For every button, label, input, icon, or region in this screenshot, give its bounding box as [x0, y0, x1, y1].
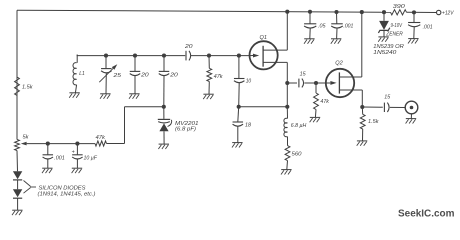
inductor L1: [73, 55, 85, 93]
capacitor 10uF electrolytic: [72, 144, 98, 169]
node junction output filter: [412, 10, 416, 14]
node junction Q1 drain to rail: [285, 10, 289, 14]
ground (output jack): [406, 119, 417, 124]
inductor 6.8uH: [284, 107, 307, 137]
svg-text:47k: 47k: [96, 135, 107, 141]
svg-text:10 µF: 10 µF: [84, 155, 98, 161]
ground (.001 output): [408, 39, 419, 44]
ground (47k gate): [203, 94, 214, 99]
zener diode 1N5239: [378, 12, 389, 37]
capacitor .001 bypass: [331, 12, 353, 39]
connector output jack: [405, 101, 418, 114]
resistor 47k (wiper bus): [95, 135, 107, 146]
varactor MV2201: [158, 107, 172, 144]
resistor 390: [391, 4, 407, 15]
svg-text:1.5k: 1.5k: [22, 85, 34, 91]
wire D2 to ground: [17, 198, 19, 210]
transistor Q2: [326, 69, 363, 97]
svg-text:18: 18: [245, 123, 252, 129]
svg-text:.001: .001: [343, 23, 353, 29]
capacitor .05 bypass: [304, 12, 326, 39]
transistor Q2 label: [335, 61, 343, 67]
svg-text:20: 20: [140, 72, 150, 78]
node junction varactor: [162, 105, 166, 109]
node junction zener: [382, 10, 386, 14]
capacitor 15 output: [362, 94, 405, 112]
wire oscillator bus: [77, 55, 249, 56]
node junction Q1 source / C15: [285, 81, 289, 85]
svg-text:Q2: Q2: [335, 61, 343, 67]
ground (varactor): [158, 144, 169, 149]
svg-text:5k: 5k: [23, 134, 30, 140]
node junction 10uF at wiper: [75, 142, 79, 146]
label zener voltage: [391, 23, 403, 29]
node junction cap 20 a: [133, 54, 137, 58]
node junction .001 at wiper: [46, 142, 50, 146]
resistor 560: [285, 137, 302, 170]
pot wiper arrow: [21, 142, 48, 146]
label varactor: [175, 121, 199, 133]
svg-text:+: +: [72, 149, 75, 155]
node junction Q2 drain to rail: [360, 10, 364, 14]
resistor 1.5k: [15, 77, 34, 96]
ground (cap 18): [232, 143, 243, 148]
node junction cap 10: [237, 54, 241, 58]
watermark SeekIC.com: [398, 208, 455, 219]
wire top supply rail: [17, 10, 437, 12]
ground (L1): [69, 93, 80, 98]
capacitor 18: [233, 107, 252, 143]
ground (10uF): [72, 168, 83, 173]
wire Q1 source down: [286, 62, 288, 106]
capacitor 20 a: [130, 56, 150, 94]
svg-text:.05: .05: [318, 23, 326, 29]
wire Q1 drain to rail: [286, 12, 288, 50]
node junction cap 20 b: [162, 54, 166, 58]
transistor Q1 label: [260, 35, 268, 41]
diode D1 (silicon): [13, 171, 22, 180]
capacitor .001 output filter: [408, 12, 433, 38]
var cap 25 arrow: [99, 64, 117, 82]
node junction Q2 source: [360, 105, 364, 109]
ground (.001 wiper): [42, 168, 53, 173]
svg-text:1.5k: 1.5k: [368, 119, 380, 125]
ground (diodes): [12, 210, 23, 215]
callout silicon diodes: [24, 181, 96, 198]
node junction 47k bias: [207, 54, 211, 58]
wire Q2 source down: [361, 90, 363, 107]
svg-text:20: 20: [184, 44, 194, 50]
svg-text:15: 15: [384, 94, 391, 100]
node junction Q2 gate 47k: [314, 81, 318, 85]
diode D2 (silicon): [13, 189, 22, 198]
wire source node: [239, 106, 288, 108]
capacitor 10: [234, 56, 252, 107]
svg-text:560: 560: [292, 152, 303, 158]
potentiometer 5k: [15, 134, 30, 150]
svg-text:390: 390: [393, 4, 406, 10]
ground (560): [281, 170, 292, 175]
node junction var cap 25: [104, 54, 108, 58]
capacitor 15 interstage: [287, 72, 325, 88]
svg-text:.001: .001: [423, 25, 433, 31]
label zener part: [373, 44, 404, 56]
wire wiper bus: [48, 107, 164, 144]
svg-text:(6.8 pF): (6.8 pF): [175, 127, 196, 133]
svg-text:15: 15: [300, 72, 307, 78]
variable capacitor 25: [101, 56, 122, 94]
wire pot to diodes: [16, 151, 19, 172]
transistor Q1: [250, 41, 288, 69]
svg-text:47k: 47k: [320, 99, 330, 105]
ground (zener): [378, 37, 389, 42]
svg-text:Q1: Q1: [260, 35, 268, 41]
ground (.05): [304, 39, 315, 44]
node junction inductor 6.8uH: [285, 105, 289, 109]
ground (47k Q2): [310, 117, 321, 122]
wire jack to ground: [410, 114, 412, 119]
svg-text:6.8 µH: 6.8 µH: [291, 123, 307, 129]
svg-text:25: 25: [112, 73, 122, 79]
ground (var cap 25): [100, 94, 111, 99]
capacitor 20 series: [184, 44, 194, 61]
resistor 1.5k (Q2 source): [360, 107, 379, 141]
svg-text:1N5240: 1N5240: [373, 50, 397, 56]
svg-text:(1N914, 1N4145, etc.): (1N914, 1N4145, etc.): [38, 191, 96, 197]
capacitor .001 (wiper): [43, 144, 65, 169]
svg-text:20: 20: [169, 72, 179, 78]
wire left branch (input bias line): [16, 10, 18, 139]
svg-text:ZENER: ZENER: [385, 32, 403, 38]
svg-text:L1: L1: [79, 71, 85, 77]
resistor 47k (gate bias): [207, 56, 224, 95]
ground (.001): [331, 39, 342, 44]
ground (cap 20 a): [129, 94, 140, 99]
node junction .05 bypass: [308, 10, 312, 14]
wire D1 to D2: [17, 180, 19, 189]
svg-text:SeekIC.com: SeekIC.com: [398, 208, 455, 219]
svg-text:.001: .001: [54, 155, 65, 161]
resistor 47k (Q2 gate): [314, 83, 330, 117]
label zener: [385, 32, 403, 38]
wire Q2 drain to rail: [361, 12, 363, 77]
svg-text:10: 10: [246, 78, 252, 84]
node junction .001 bypass: [334, 10, 338, 14]
svg-text:9-10V: 9-10V: [391, 23, 403, 29]
svg-text:47k: 47k: [214, 74, 224, 80]
terminal +12V: [437, 10, 455, 16]
svg-text:+12V: +12V: [442, 11, 455, 17]
capacitor 20 b: [159, 56, 179, 107]
node junction cap 18: [237, 105, 241, 109]
ground (1.5k): [357, 141, 368, 146]
